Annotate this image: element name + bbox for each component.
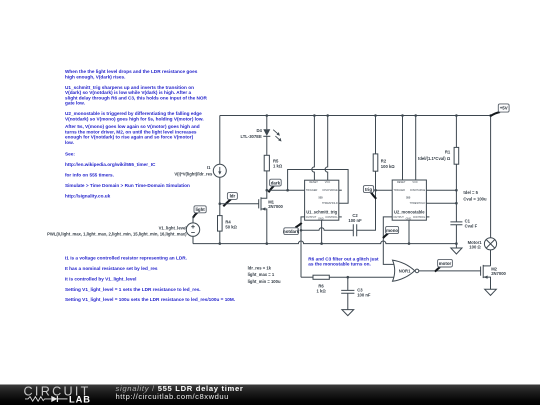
- transistor M2: [481, 265, 491, 289]
- label C1 value: [465, 219, 478, 229]
- svg-text:2N7000: 2N7000: [491, 271, 506, 276]
- op-amp U2_monostable 555 block: [392, 180, 426, 220]
- svg-text:GND: GND: [406, 216, 412, 220]
- svg-text:for info on 555 timers.: for info on 555 timers.: [65, 173, 114, 178]
- wire R2 to trig node: [375, 171, 377, 190]
- wire R6 left from notdark drop: [301, 276, 313, 278]
- junction R1 top: [455, 114, 458, 117]
- pin U2 CONTROL stub: [426, 216, 429, 218]
- label R6 value: [317, 283, 327, 293]
- wire C2 to trig riser: [357, 190, 376, 230]
- wire C1 to rail end: [455, 225, 457, 244]
- wire U2 RESET: [402, 116, 404, 181]
- parameter text ldr_res/light_max/light_min: [248, 265, 281, 284]
- MOSFET M1: [259, 190, 267, 243]
- svg-text:D4: D4: [256, 128, 262, 133]
- svg-text:tdel/(1.1*Cval) Ω: tdel/(1.1*Cval) Ω: [418, 156, 451, 161]
- svg-text:LTL-307EE: LTL-307EE: [240, 134, 262, 139]
- capacitor C1: [450, 222, 462, 225]
- junction M1 source/rail: [266, 242, 269, 245]
- svg-text:light_min = 100u: light_min = 100u: [248, 279, 281, 284]
- junction rail end: [455, 242, 458, 245]
- wire U1 GND to rail: [321, 220, 323, 243]
- resistor R1: [454, 147, 459, 164]
- svg-text:2N7000: 2N7000: [268, 204, 283, 209]
- svg-text:100 Ω: 100 Ω: [469, 245, 481, 250]
- resistor R5: [264, 155, 269, 171]
- label R1 value: [418, 150, 451, 161]
- svg-text:ldr_res = 1k: ldr_res = 1k: [248, 265, 272, 270]
- svg-text:motor: motor: [439, 261, 452, 266]
- wire top +5V rail: [220, 115, 491, 117]
- svg-text:VCC: VCC: [412, 180, 418, 184]
- node light label: [193, 206, 206, 218]
- wire rail to R1: [455, 116, 457, 148]
- svg-text:slight delay through R6 and C3: slight delay through R6 and C3, this hol…: [65, 95, 208, 100]
- wire U2 VCC: [415, 116, 417, 181]
- wire R1 to C1: [455, 164, 457, 222]
- svg-text:http://circuitlab.com/c8xwduu: http://circuitlab.com/c8xwduu: [116, 392, 229, 401]
- svg-text:U2_monostable: U2_monostable: [394, 210, 425, 215]
- junction THRESHOLD/R1: [455, 202, 458, 205]
- svg-text:555: 555: [406, 196, 411, 200]
- svg-text:Setting V1_light_level = 1 set: Setting V1_light_level = 1 sets the LDR …: [65, 287, 201, 292]
- svg-text:THRESHOLD: THRESHOLD: [322, 201, 338, 205]
- svg-text:light_max = 1: light_max = 1: [248, 272, 275, 277]
- wire R6 to NOR input: [329, 276, 395, 278]
- label R4 value: [225, 219, 237, 229]
- junction U1 RESET top: [313, 114, 316, 117]
- svg-text:U1_schmitt_trig: U1_schmitt_trig: [306, 210, 337, 215]
- junction U2 GND/rail: [408, 242, 411, 245]
- label C3 value: [357, 288, 371, 298]
- node notdark junction: [300, 229, 303, 232]
- svg-text:It is controlled by V1_light_l: It is controlled by V1_light_level: [65, 276, 136, 281]
- svg-text:THRESHOLD: THRESHOLD: [410, 201, 426, 205]
- svg-text:V(notdark) so V(mono) goes hig: V(notdark) so V(mono) goes high for 5s, …: [65, 116, 204, 121]
- resistor R4: [218, 216, 223, 232]
- svg-text:V1_light_level: V1_light_level: [159, 226, 187, 231]
- node dark junction: [266, 189, 269, 192]
- svg-text:GND: GND: [318, 216, 324, 220]
- svg-text:RESET: RESET: [397, 180, 406, 184]
- wire ldr to M1 gate: [220, 203, 259, 205]
- motor Motor1: [484, 238, 496, 250]
- voltage source V1_light_level: [186, 223, 199, 236]
- svg-text:1 kΩ: 1 kΩ: [273, 164, 283, 169]
- svg-text:After 5s, V(mono) goes low aga: After 5s, V(mono) goes low again so V(mo…: [65, 124, 200, 129]
- wire trig to U2 TRIGGER: [376, 189, 393, 191]
- wire R5 to dark node: [266, 171, 268, 190]
- node motor label: [435, 259, 453, 271]
- svg-text:NOR1: NOR1: [399, 269, 411, 274]
- svg-text:RESET: RESET: [309, 180, 318, 184]
- svg-text:gate low.: gate low.: [65, 101, 85, 106]
- wire dark to U1 TRIGGER: [267, 189, 305, 191]
- wire U2 OUTPUT to mono/NOR: [383, 217, 395, 265]
- svg-text:mono: mono: [386, 228, 398, 233]
- wire U2 GND to rail: [408, 220, 410, 243]
- svg-text:DISCHARGE: DISCHARGE: [410, 188, 425, 192]
- svg-text:CONTROL: CONTROL: [325, 215, 338, 219]
- svg-text:U2_monostable is triggered by: U2_monostable is triggered by differenti…: [65, 111, 202, 116]
- wire rail to R2: [375, 116, 377, 154]
- wire R4 to ground rail: [219, 231, 221, 244]
- svg-text:R2: R2: [381, 158, 387, 163]
- svg-text:555: 555: [318, 196, 323, 200]
- label C2 value: [348, 213, 362, 223]
- svg-text:as the monostable turns on.: as the monostable turns on.: [308, 262, 371, 267]
- svg-text:100 nF: 100 nF: [348, 218, 362, 223]
- svg-text:low.: low.: [65, 140, 74, 145]
- junction +5V corner: [489, 114, 492, 117]
- resistor R6: [313, 275, 329, 279]
- svg-text:light: light: [195, 207, 205, 212]
- wire notdark to C2 with hop over U1 GND: [301, 228, 353, 231]
- node ldr label: [223, 193, 237, 207]
- parameter text tdel/Cval: [463, 190, 487, 202]
- resistor R2: [373, 154, 378, 171]
- wire U1 OUTPUT to notdark: [301, 217, 305, 230]
- svg-text:PWL(0,light_max, 1,light_max,: PWL(0,light_max, 1,light_max, 2,light_mi…: [47, 232, 187, 237]
- svg-text:+5V: +5V: [500, 106, 508, 111]
- svg-text:100 nF: 100 nF: [357, 292, 371, 297]
- junction U1 VCC top: [326, 114, 329, 117]
- label M2: [491, 267, 506, 277]
- wire U2 THRESHOLD to R1 leg: [426, 202, 456, 204]
- svg-text:50 kΩ: 50 kΩ: [225, 224, 237, 229]
- wire I1 top: [219, 116, 221, 165]
- svg-text:enough for V(notdark) to rise: enough for V(notdark) to rise again and …: [65, 135, 194, 140]
- svg-text:notdark: notdark: [283, 229, 300, 234]
- ground at C3: [342, 293, 354, 315]
- junction U1 GND/rail: [320, 242, 323, 245]
- node mono label: [383, 226, 399, 238]
- wire V1 top stub: [192, 216, 194, 223]
- label R2 value: [381, 158, 395, 169]
- svg-text:trig: trig: [365, 187, 372, 192]
- svg-text:LAB: LAB: [69, 395, 91, 405]
- wire ground rail with hops: [193, 241, 456, 244]
- junction U2 RESET top: [401, 114, 404, 117]
- LED D4: [263, 129, 281, 141]
- svg-text:http://en.wikipedia.org/wiki/5: http://en.wikipedia.org/wiki/555_timer_I…: [65, 162, 156, 167]
- gate NOR1: [393, 260, 419, 281]
- svg-text:http://signality.co.uk: http://signality.co.uk: [65, 193, 111, 198]
- node trig label: [363, 186, 376, 199]
- pin U1 DISCHARGE stub: [339, 189, 342, 191]
- svg-text:Simulate > Time Domain > Run T: Simulate > Time Domain > Run Time-Domain…: [65, 183, 190, 188]
- svg-text:1 kΩ: 1 kΩ: [317, 288, 327, 293]
- wire top rail to D4: [266, 116, 268, 130]
- annotation note near NOR gate: [308, 256, 379, 266]
- junction dark riser: [286, 189, 289, 192]
- svg-text:VCC: VCC: [325, 180, 331, 184]
- wire NOR1 output to M2 gate: [419, 270, 481, 272]
- annotation paragraph block top-left: [65, 69, 208, 198]
- wire dark riser to U1 THRESHOLD: [288, 170, 349, 204]
- capacitor C2: [353, 224, 356, 236]
- svg-text:CONTROL: CONTROL: [413, 215, 426, 219]
- wire U1 RESET with hop: [312, 116, 315, 181]
- svg-text:OUTPUT: OUTPUT: [306, 215, 317, 219]
- svg-text:V(dark) so V(notdark) is low w: V(dark) so V(notdark) is low while V(dar…: [65, 90, 192, 95]
- svg-text:Cval F: Cval F: [465, 223, 478, 228]
- node ldr junction: [219, 202, 222, 205]
- wire D4 to R5: [266, 136, 268, 155]
- svg-text:high enough, V(dark) rises.: high enough, V(dark) rises.: [65, 74, 125, 79]
- svg-text:R1: R1: [445, 150, 451, 155]
- svg-text:I1 is a voltage controlled res: I1 is a voltage controlled resistor repr…: [65, 256, 187, 261]
- label R5 value: [273, 159, 283, 169]
- junction R2 top: [374, 114, 377, 117]
- capacitor C3: [341, 290, 354, 293]
- svg-text:100 kΩ: 100 kΩ: [381, 164, 395, 169]
- svg-text:It has a nominal resistance se: It has a nominal resistance set by led_r…: [65, 266, 158, 271]
- wire I1 to R4: [219, 177, 221, 215]
- node dark label: [269, 179, 282, 192]
- wire U2 DISCHARGE to R1 leg: [426, 189, 456, 191]
- svg-text:U1_schmitt_trig sharpens up an: U1_schmitt_trig sharpens up and inverts …: [65, 85, 194, 90]
- svg-text:TRIGGER: TRIGGER: [393, 188, 405, 192]
- svg-text:turns the motor driver, M2, on: turns the motor driver, M2, on until the…: [65, 129, 197, 134]
- svg-text:V(I)*V(light)/ldr_res: V(I)*V(light)/ldr_res: [174, 171, 213, 176]
- wire right drop to Motor1: [490, 116, 492, 238]
- svg-text:dark: dark: [271, 180, 281, 185]
- junction R4/rail: [219, 242, 222, 245]
- footer bar: [0, 385, 540, 405]
- junction DISCHARGE/R1: [455, 189, 458, 192]
- op-amp U1_schmitt_trig 555 block: [305, 180, 339, 220]
- junction C3 top: [347, 276, 350, 279]
- node notdark label: [283, 223, 302, 235]
- node trig junction: [374, 189, 377, 192]
- wire Motor1 to M2 drain: [490, 250, 492, 266]
- svg-text:Setting V1_light_level = 100u: Setting V1_light_level = 100u sets the L…: [65, 297, 235, 302]
- junction U2 VCC top: [414, 114, 417, 117]
- label M1: [268, 200, 283, 210]
- svg-text:See:: See:: [65, 152, 75, 157]
- svg-text:OUTPUT: OUTPUT: [393, 215, 404, 219]
- svg-text:tdel = 5: tdel = 5: [463, 190, 478, 195]
- pin U1 CONTROL stub: [339, 216, 342, 218]
- label Motor1 value: [468, 240, 483, 250]
- svg-text:Cval = 100u: Cval = 100u: [463, 196, 487, 201]
- annotation block lower-left about LDR: [65, 256, 235, 303]
- node +5V flag: [490, 104, 509, 116]
- junction D4 top: [266, 114, 269, 117]
- wire U1 VCC with hop: [325, 116, 328, 181]
- svg-text:ldr: ldr: [230, 194, 236, 199]
- svg-text:DISCHARGE: DISCHARGE: [323, 188, 338, 192]
- ground at C1: [451, 244, 462, 254]
- ground at M2: [485, 289, 497, 295]
- wire notdark down to R6: [300, 230, 302, 277]
- wire C3 drop: [347, 277, 349, 290]
- svg-text:When the the light level drops: When the the light level drops and the L…: [65, 69, 198, 74]
- wire V1 bottom: [192, 236, 194, 243]
- current source I1: [213, 164, 226, 177]
- svg-text:TRIGGER: TRIGGER: [306, 188, 318, 192]
